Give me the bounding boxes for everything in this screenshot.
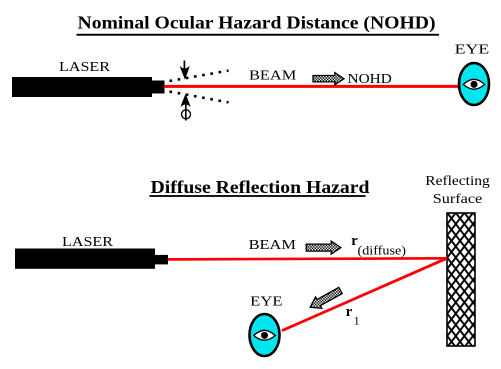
reflected beam line to eye bbox=[282, 258, 447, 330]
svg-text:NOHD: NOHD bbox=[348, 72, 392, 87]
svg-text:r: r bbox=[346, 304, 353, 320]
svg-text:Reflecting: Reflecting bbox=[425, 174, 490, 189]
svg-text:LASER: LASER bbox=[62, 235, 114, 250]
striped arrow (bottom, r diffuse) bbox=[306, 241, 341, 254]
title: Nominal Ocular Hazard Distance (NOHD) bbox=[77, 12, 440, 35]
divergence dotted line lower bbox=[170, 92, 229, 103]
title: Diffuse Reflection Hazard bbox=[150, 177, 370, 197]
beam line (top) bbox=[164, 85, 459, 88]
svg-text:EYE: EYE bbox=[455, 43, 490, 58]
laser body (bottom) bbox=[15, 249, 168, 269]
svg-text:BEAM: BEAM bbox=[249, 238, 297, 253]
divergence up arrow bbox=[180, 94, 190, 121]
svg-text:1: 1 bbox=[354, 313, 360, 327]
svg-text:Nominal Ocular Hazard Distance: Nominal Ocular Hazard Distance (NOHD) bbox=[78, 12, 436, 33]
svg-text:LASER: LASER bbox=[59, 60, 111, 75]
eye (top) bbox=[459, 63, 489, 105]
svg-text:EYE: EYE bbox=[250, 294, 282, 309]
svg-text:BEAM: BEAM bbox=[249, 69, 297, 84]
label r (diffuse) bbox=[351, 233, 406, 258]
label r1 bbox=[346, 304, 360, 328]
beam line (bottom, to surface) bbox=[168, 258, 447, 259]
label Reflecting Surface bbox=[425, 174, 490, 207]
striped arrow (diagonal, r1) bbox=[310, 287, 342, 308]
laser body (top) bbox=[12, 77, 165, 97]
divergence dotted line upper bbox=[170, 71, 229, 81]
svg-text:Surface: Surface bbox=[433, 192, 483, 207]
reflecting surface bbox=[447, 213, 475, 346]
striped arrow (top, NOHD) bbox=[313, 73, 344, 85]
phi symbol circle bbox=[182, 110, 191, 119]
svg-text:(diffuse): (diffuse) bbox=[358, 243, 407, 258]
svg-text:Diffuse Reflection Hazard: Diffuse Reflection Hazard bbox=[151, 177, 370, 197]
eye (bottom) bbox=[250, 314, 280, 356]
divergence down arrow bbox=[180, 61, 190, 80]
